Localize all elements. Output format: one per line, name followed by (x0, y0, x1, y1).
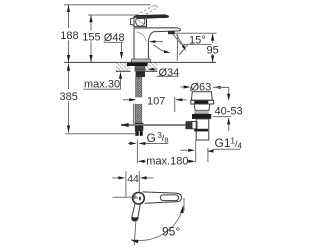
svg-text:95°: 95° (162, 225, 180, 239)
svg-text:385: 385 (60, 91, 78, 103)
svg-text:Ø34: Ø34 (159, 67, 180, 79)
svg-text:95: 95 (207, 45, 219, 57)
svg-text:155: 155 (82, 31, 100, 43)
svg-text:44: 44 (127, 173, 139, 185)
svg-text:Ø63: Ø63 (191, 82, 212, 94)
svg-text:max.180: max.180 (146, 155, 188, 167)
svg-text:107: 107 (147, 96, 165, 108)
svg-text:188: 188 (60, 30, 78, 42)
svg-text:40-53: 40-53 (215, 105, 243, 117)
